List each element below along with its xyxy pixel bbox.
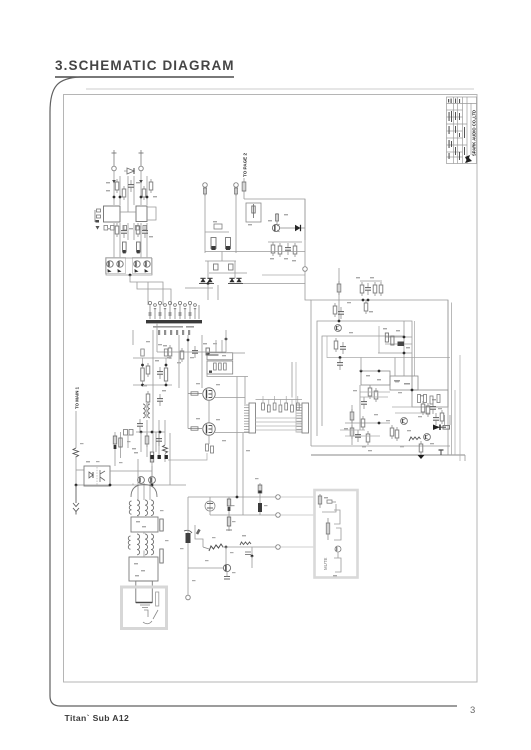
transistor Q80 xyxy=(335,546,341,552)
wire nested rail 3 xyxy=(322,336,404,426)
rail y423 xyxy=(345,422,390,424)
resistor R58 xyxy=(421,401,425,415)
output wire to driver xyxy=(130,275,163,305)
outer border faint top line xyxy=(86,88,474,90)
drain wire to connector xyxy=(215,398,245,405)
wire rails under relay xyxy=(360,391,390,393)
resistor R81 xyxy=(326,518,329,540)
wires xyxy=(114,458,116,466)
title underline xyxy=(55,76,234,78)
resistor R70 xyxy=(160,519,163,531)
drive transistor Q22 xyxy=(138,477,145,484)
rail xyxy=(157,351,226,353)
transistor Q42 xyxy=(424,434,431,441)
transformer T1 top dome xyxy=(131,485,157,498)
resistor R23 xyxy=(278,243,282,257)
wire xyxy=(75,457,77,485)
wire bridge to box xyxy=(243,284,311,301)
cap C47 below xyxy=(337,358,343,370)
capacitor CX2 xyxy=(226,238,231,251)
wires between op-amps xyxy=(120,211,136,213)
resistor R45 xyxy=(333,303,337,317)
wire MOSFET source chain xyxy=(208,400,210,423)
resistor R42 xyxy=(373,282,377,296)
capacitor C30 xyxy=(192,346,198,358)
wire IC outputs down xyxy=(156,323,158,352)
resistor R9 tall xyxy=(137,242,141,253)
right small cluster resistors xyxy=(378,321,415,376)
diode D70 xyxy=(258,483,262,497)
resistor R7 xyxy=(136,223,140,237)
resistor R74 below xyxy=(226,515,232,531)
resistor R53 xyxy=(350,425,354,439)
feed wires from above xyxy=(242,433,244,515)
wire bias rail xyxy=(222,546,276,548)
gate resistor R33 xyxy=(188,427,202,430)
inner border rectangle xyxy=(64,95,478,683)
resistor R22 xyxy=(271,242,275,256)
stray value labels xyxy=(80,341,268,581)
transistor Q4 xyxy=(144,261,150,273)
labels xyxy=(163,345,167,346)
fan parts inside xyxy=(143,610,158,624)
rail upper xyxy=(133,357,172,359)
inductor L1 driver coil xyxy=(143,403,150,418)
svg-text:3.SCHEMATIC DIAGRAM: 3.SCHEMATIC DIAGRAM xyxy=(55,58,235,73)
wire down from bridge xyxy=(207,284,209,300)
wire cable between connectors xyxy=(256,418,303,430)
capacitor C50 xyxy=(361,397,367,409)
net stub gray xyxy=(281,496,315,498)
resistor R65 xyxy=(145,433,149,447)
resistor row above cable xyxy=(256,399,303,401)
resistor R59 xyxy=(426,403,430,417)
driver hybrid U5 xyxy=(207,361,233,374)
wire N line xyxy=(235,196,237,253)
capacitor C71 xyxy=(245,552,251,555)
resistor R63 xyxy=(146,363,150,377)
resistor R61 xyxy=(119,432,122,458)
zigzag resistor R60 xyxy=(73,448,79,457)
pin small parts row xyxy=(149,312,192,316)
resistor R1 xyxy=(115,179,119,193)
lower pin marks xyxy=(158,330,190,335)
drive transistor Q23 xyxy=(149,477,156,484)
junction dots on rail xyxy=(362,299,365,302)
title block logo xyxy=(465,155,472,163)
capacitor C53 xyxy=(433,413,439,425)
bottom rails xyxy=(311,445,450,447)
aux rails left of driver xyxy=(133,349,172,386)
resistor R20 top xyxy=(242,178,246,199)
capacitor C1 polarized xyxy=(124,168,134,174)
resistor R52 xyxy=(350,409,354,423)
wire nested rail 2 xyxy=(317,321,412,436)
wire relay feeders xyxy=(394,358,396,377)
connector CON1 comb xyxy=(244,403,256,433)
top right rails xyxy=(392,406,448,408)
transistor Q3 xyxy=(134,261,140,273)
transistor Q72 xyxy=(223,564,230,571)
wire winding links xyxy=(137,516,139,518)
thermal device Q73 dark xyxy=(184,530,192,543)
T2 lower body xyxy=(136,581,153,603)
wire nested rail 4 xyxy=(327,336,450,358)
resistor R54 xyxy=(361,416,365,430)
junction row xyxy=(113,196,116,199)
relay box K1 xyxy=(361,371,390,385)
transistor Q40 xyxy=(335,325,342,332)
resistor R40 xyxy=(337,281,341,295)
capacitor C65 xyxy=(137,419,143,431)
transistor Q2 xyxy=(117,261,123,273)
pcb highlight box (light) xyxy=(122,587,167,629)
primary winding W1 xyxy=(137,500,154,516)
zigzag resistor R66 xyxy=(163,445,168,453)
label cluster left of Q10 xyxy=(268,220,272,221)
capacitor C3 xyxy=(121,226,127,238)
feedback parts above opto: capacitor C60 xyxy=(113,432,116,458)
wire controller feed verticals xyxy=(152,330,154,452)
parts inside K3 xyxy=(411,389,440,404)
fuse F2 with pad xyxy=(234,183,239,196)
cap pair C61 horizontal xyxy=(124,430,134,436)
resistor R48 xyxy=(391,336,394,345)
capacitor C62 xyxy=(157,367,163,379)
diode D40 dark arrow xyxy=(433,425,446,431)
outer border left arc xyxy=(50,77,457,706)
left elbow wire xyxy=(195,525,203,547)
resistor R2 xyxy=(122,186,126,200)
capacitor C72 xyxy=(224,572,230,580)
svg-text:SPARK AUDIO CO.,LTD: SPARK AUDIO CO.,LTD xyxy=(472,110,477,156)
diode D30 xyxy=(206,348,209,355)
connector CON2 comb xyxy=(297,403,309,433)
small caps pair xyxy=(214,264,219,270)
detector cluster rails xyxy=(385,336,412,338)
capacitor C51 xyxy=(430,402,436,414)
resistor R5 left stub xyxy=(95,209,101,230)
wire L line xyxy=(204,196,206,253)
ground stub GND1 xyxy=(439,450,444,455)
capacitor C10 inside xyxy=(252,204,255,218)
wire rails below U5 xyxy=(207,374,248,377)
capacitor CX1 xyxy=(211,238,216,251)
resistor R76 rotated xyxy=(197,530,200,535)
emitter rail wires xyxy=(106,258,152,275)
wire from left xyxy=(188,567,223,569)
winding side bumps left xyxy=(129,501,131,514)
capacitor C46 xyxy=(340,342,346,354)
resistor R62 xyxy=(150,452,153,462)
svg-text:Titan` Sub A12: Titan` Sub A12 xyxy=(65,713,130,723)
zigzag pot VR2 xyxy=(209,544,223,551)
parts top xyxy=(324,497,328,498)
IC U2 part number text xyxy=(153,326,183,328)
secondary winding W2 xyxy=(128,534,153,555)
label xyxy=(248,224,252,225)
rail under Q10 xyxy=(268,241,302,243)
labels xyxy=(270,258,274,259)
op-amp U1A xyxy=(104,206,121,222)
top snubber cluster xyxy=(356,277,383,296)
feedback loop wires U1B xyxy=(147,207,156,220)
zigzag resistor VR1 xyxy=(409,437,421,441)
capacitor C63 xyxy=(157,394,163,406)
wire right bus pair xyxy=(454,390,456,455)
wire bridge verticals xyxy=(207,261,209,278)
wire pair vertical right xyxy=(291,362,293,398)
value labels xyxy=(106,182,110,183)
diode D41 dark xyxy=(398,342,405,347)
wire from bridge down left edge xyxy=(338,268,340,321)
dark pad bottom xyxy=(418,455,425,459)
elbow wires xyxy=(322,504,336,512)
resistor R55 xyxy=(390,425,394,439)
pad P2 xyxy=(276,513,281,518)
bracket parts xyxy=(334,510,340,524)
electrolytic cap C70 xyxy=(205,497,215,515)
lower bracket xyxy=(334,558,341,572)
resistor R8 tall xyxy=(123,242,127,253)
resistor R57 boxed xyxy=(443,415,450,429)
resistor R21 above Q10 xyxy=(275,213,278,224)
pcb highlight box (light) xyxy=(315,490,358,578)
parts inside K2 xyxy=(394,380,410,385)
resistor R30 xyxy=(168,345,172,359)
value labels extra xyxy=(347,302,442,451)
capacitor C41 xyxy=(365,283,371,295)
small parts under xyxy=(355,430,361,442)
pad P1 xyxy=(276,495,281,500)
wire pair box left xyxy=(106,258,126,274)
transistor Q1 xyxy=(107,261,113,273)
resistor R72 xyxy=(156,592,159,606)
wire to Q72 xyxy=(225,547,227,564)
resistor R73 xyxy=(227,497,230,515)
wire op-amp outputs down xyxy=(113,223,115,258)
resistor R51 xyxy=(374,388,378,402)
wire rail controller xyxy=(136,431,165,433)
left column parts xyxy=(351,405,353,445)
transistor Q41 xyxy=(401,418,408,425)
resistor R44 below rail xyxy=(364,300,368,314)
resistor R31 xyxy=(180,348,184,362)
junction xyxy=(207,282,210,285)
resistor R71 xyxy=(160,549,163,563)
svg-text:TO PAGE 2: TO PAGE 2 xyxy=(243,153,249,177)
labels xyxy=(107,228,111,229)
resistor R47 xyxy=(385,333,388,342)
resistor R4 xyxy=(149,179,153,193)
bottom rail xyxy=(76,484,186,486)
left rail cluster: varistor RV1 xyxy=(205,221,229,232)
wire xyxy=(75,411,77,448)
resistor R50 xyxy=(368,385,372,399)
op-amp U1B xyxy=(136,206,147,222)
resistor R75 horizontal zig xyxy=(240,542,251,545)
box K3 xyxy=(412,390,448,407)
connector J1 input pads xyxy=(112,150,117,205)
capacitor row below op-amps xyxy=(104,226,147,231)
MOSFET Q20 xyxy=(203,388,215,400)
resistor R59b xyxy=(440,410,444,424)
rail V+ xyxy=(210,496,276,498)
node primary pads xyxy=(151,455,154,459)
resistor R80 xyxy=(318,494,321,508)
cap C52 + junction bottom xyxy=(419,441,423,455)
title block small texts xyxy=(448,99,465,161)
IC U2 pin row top xyxy=(150,305,199,319)
wire into opto xyxy=(76,469,84,471)
capacitor C4 xyxy=(142,226,148,238)
resistor R24 xyxy=(293,243,297,257)
resistor R36 xyxy=(164,358,167,385)
svg-text:MUTE: MUTE xyxy=(323,557,328,570)
capacitor C64 xyxy=(156,434,162,446)
wire drops into dome xyxy=(137,459,139,487)
pad P4 xyxy=(186,595,191,600)
capacitor C2 xyxy=(128,180,134,192)
core box T1 xyxy=(131,517,158,532)
title block table xyxy=(447,97,477,164)
snubber box loop xyxy=(244,199,305,240)
resistor R46 xyxy=(334,338,338,352)
resistor R43 xyxy=(379,282,383,296)
wire opto output xyxy=(110,470,152,472)
svg-text:TO MAIN 1: TO MAIN 1 xyxy=(75,387,81,409)
svg-text:3: 3 xyxy=(470,705,475,716)
node rail top xyxy=(311,300,448,455)
gate feed wires xyxy=(187,352,189,394)
fuse F1 with pad xyxy=(203,183,208,196)
rails xyxy=(340,429,365,431)
IC U2 body bar xyxy=(146,320,202,323)
driver hybrid U4 xyxy=(207,353,245,360)
capacitor C45 xyxy=(338,307,344,319)
diode D10 dark xyxy=(280,225,305,231)
resistor R41 xyxy=(360,282,364,296)
resistor R64 xyxy=(146,391,150,405)
resistor R37 above rail xyxy=(141,349,144,356)
diode D71 dark xyxy=(258,497,262,515)
resistor R35 xyxy=(141,358,144,385)
resistor R6 xyxy=(115,223,119,237)
wire risers xyxy=(119,176,121,205)
transistor Q10 xyxy=(272,224,279,232)
rectifier diode pair D3 D4 xyxy=(209,273,247,284)
capacitor C11 xyxy=(285,243,291,255)
rail lower xyxy=(133,384,172,386)
MOSFET Q21 xyxy=(203,423,215,435)
inner parts of K boxes xyxy=(366,375,370,376)
transformer T2 box xyxy=(129,557,158,581)
gate resistor R32 xyxy=(188,392,202,395)
rectifier diode pair D1 D2 xyxy=(185,278,214,288)
resistor R3 xyxy=(142,186,146,200)
earth symbol xyxy=(73,485,79,515)
bottom rail xyxy=(205,251,305,253)
relay box K2 xyxy=(390,376,418,390)
pin top tick marks xyxy=(154,308,196,309)
wire pad node xyxy=(303,199,308,284)
opto-coupler U3 xyxy=(84,461,110,486)
resistor R56 xyxy=(395,427,399,441)
rail V- xyxy=(210,514,276,516)
